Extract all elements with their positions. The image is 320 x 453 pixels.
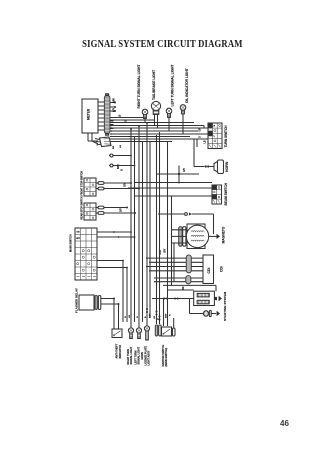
wire code labels at CDI coupler xyxy=(160,248,185,290)
svg-text:A/Y: A/Y xyxy=(183,168,186,172)
svg-text:BR: BR xyxy=(113,145,115,149)
wire code labels at CN1 xyxy=(113,98,128,122)
svg-text:O: O xyxy=(137,316,139,318)
wire main switch to harness xyxy=(97,232,135,268)
CDI unit U2 xyxy=(203,255,214,284)
svg-text:B/W: B/W xyxy=(160,249,162,254)
wire front stop switch leads with bullet connectors xyxy=(96,182,140,190)
wire code ticks near bottom of trunk xyxy=(125,313,172,320)
svg-text:LB: LB xyxy=(120,145,122,148)
svg-text:R: R xyxy=(170,314,172,316)
svg-text:B/W: B/W xyxy=(117,164,120,169)
svg-text:MAIN SWITCH: MAIN SWITCH xyxy=(69,234,73,252)
wire code labels at stop switch leads xyxy=(121,183,127,212)
battery BT1 xyxy=(152,285,216,305)
svg-text:G/Y: G/Y xyxy=(121,208,123,212)
svg-text:STARTING SYSTEM: STARTING SYSTEM xyxy=(223,291,227,321)
lamp L2 tail/brake light xyxy=(151,101,160,128)
bus wires (harness) xyxy=(110,118,208,142)
svg-text:CDI: CDI xyxy=(207,268,211,274)
connector pair (to lighting system) at node B xyxy=(158,213,214,235)
wire speedometer pins to connector CN1 xyxy=(98,102,104,130)
connector CN1 right-side pin stubs xyxy=(110,102,116,129)
svg-text:TURN SWITCH: TURN SWITCH xyxy=(224,125,228,148)
connector CN6 (small coupler right of ignition switch) xyxy=(172,318,175,336)
wire bus to turn switch pins xyxy=(197,126,208,148)
lamp B2 front left turn signal xyxy=(136,328,141,339)
svg-text:B/W: B/W xyxy=(113,98,116,103)
svg-text:LB: LB xyxy=(129,315,131,318)
svg-text:LB: LB xyxy=(154,316,156,319)
plug P1 (power source plug) xyxy=(95,137,111,147)
svg-text:FLASHER RELAY: FLASHER RELAY xyxy=(75,288,79,313)
wire lead with bullet terminal (to front harness) xyxy=(109,154,132,169)
svg-text:TAIL/BRAKE LIGHT: TAIL/BRAKE LIGHT xyxy=(152,70,156,100)
svg-text:REAR STOP SWITCH: REAR STOP SWITCH xyxy=(81,196,84,219)
label: IGNITION SWITCH xyxy=(162,345,168,367)
svg-text:G/Y: G/Y xyxy=(125,183,127,187)
svg-text:G: G xyxy=(121,169,124,171)
wire buses to dimmer switch xyxy=(128,183,212,197)
svg-text:LIGHT ASSY: LIGHT ASSY xyxy=(148,350,151,365)
rear stop switch S4 xyxy=(84,203,96,220)
svg-text:OIL INDICATOR LIGHT: OIL INDICATOR LIGHT xyxy=(185,68,189,103)
connector CN3 (CDI coupler upper) xyxy=(146,255,203,273)
svg-text:HORN: HORN xyxy=(225,161,229,172)
wire lead with bullet terminal 2 (to front harness) xyxy=(109,164,135,171)
wire rear stop switch leads with bullet connectors xyxy=(96,206,136,214)
connector CN1 (speedometer coupler) xyxy=(104,94,110,135)
wire magneto output with arrow xyxy=(209,234,220,239)
svg-text:BEAM SWITCH: BEAM SWITCH xyxy=(224,182,228,205)
connector dots on battery feed wire xyxy=(164,298,179,300)
svg-text:G: G xyxy=(125,316,127,318)
connector CN2 (magneto coupler) xyxy=(172,227,187,247)
label: LICENSE PLATE LIGHT xyxy=(144,346,150,366)
main switch S5 (contact table) xyxy=(75,228,97,280)
ignition switch S6 xyxy=(162,327,172,336)
fuse F1 xyxy=(190,299,221,317)
label: RIGHT TURN SIGNAL LIGHT (front) xyxy=(127,346,133,364)
svg-text:CDI: CDI xyxy=(220,266,224,272)
svg-text:(MAIN SWITCH): (MAIN SWITCH) xyxy=(165,348,168,367)
flasher relay K1 xyxy=(79,295,101,310)
svg-text:SIGNAL LIGHT: SIGNAL LIGHT xyxy=(130,346,133,364)
svg-text:LEFT TURN SIGNAL LIGHT: LEFT TURN SIGNAL LIGHT xyxy=(171,65,175,107)
horn H1 xyxy=(205,160,224,174)
wire flasher relay to trunk xyxy=(101,298,120,306)
lamp B1 front right turn signal xyxy=(128,328,133,339)
svg-text:B/Y: B/Y xyxy=(165,248,167,252)
wire feed to CDI couplers xyxy=(173,243,175,282)
lamp L3 left turn signal light xyxy=(166,108,172,131)
svg-text:FRONT STOP SWITCH: FRONT STOP SWITCH xyxy=(82,171,84,196)
connector CN5 (bottom coupler) xyxy=(155,325,161,336)
svg-text:O: O xyxy=(200,136,202,138)
lamp B3 license light xyxy=(144,326,149,340)
anti-theft unit U3 xyxy=(112,329,122,338)
svg-text:LB: LB xyxy=(205,140,207,143)
label: LEFT TURN SIGNAL LIGHT (front) xyxy=(134,346,140,364)
wire code labels at turn switch xyxy=(200,128,207,144)
lamp L4 oil indicator light xyxy=(180,105,186,134)
svg-text:INDICATOR: INDICATOR xyxy=(119,345,122,359)
bullet connectors on harness wires xyxy=(146,308,161,321)
dimmer switch S2 (contact table) xyxy=(212,185,222,204)
lamp L1 right turn signal light xyxy=(142,109,148,122)
wire junction dots on trunk xyxy=(113,122,164,299)
front stop switch S3 xyxy=(84,178,96,196)
svg-text:G/Y: G/Y xyxy=(113,107,116,112)
wire junction node A xyxy=(156,166,199,184)
svg-text:RIGHT TURN SIGNAL LIGHT: RIGHT TURN SIGNAL LIGHT xyxy=(137,65,141,109)
turn switch S1 (contact table) xyxy=(208,123,222,149)
label: ANTI-THEFT INDICATOR xyxy=(116,343,122,358)
svg-text:GR: GR xyxy=(200,128,202,132)
wire battery positive with arrow (to starting system) xyxy=(214,296,222,301)
wire speedometer to plug P1 xyxy=(88,133,98,144)
speedometer assembly U1 xyxy=(82,99,98,133)
svg-text:MAGNETO: MAGNETO xyxy=(222,226,226,243)
magneto G1 xyxy=(186,224,208,249)
wire code labels below bus xyxy=(113,145,122,149)
wire vertical feed to horn xyxy=(194,139,205,167)
svg-text:METER: METER xyxy=(87,108,91,120)
wire trunk verticals (main harness) xyxy=(114,123,172,329)
connector CN4 (CDI coupler lower) xyxy=(154,276,203,284)
